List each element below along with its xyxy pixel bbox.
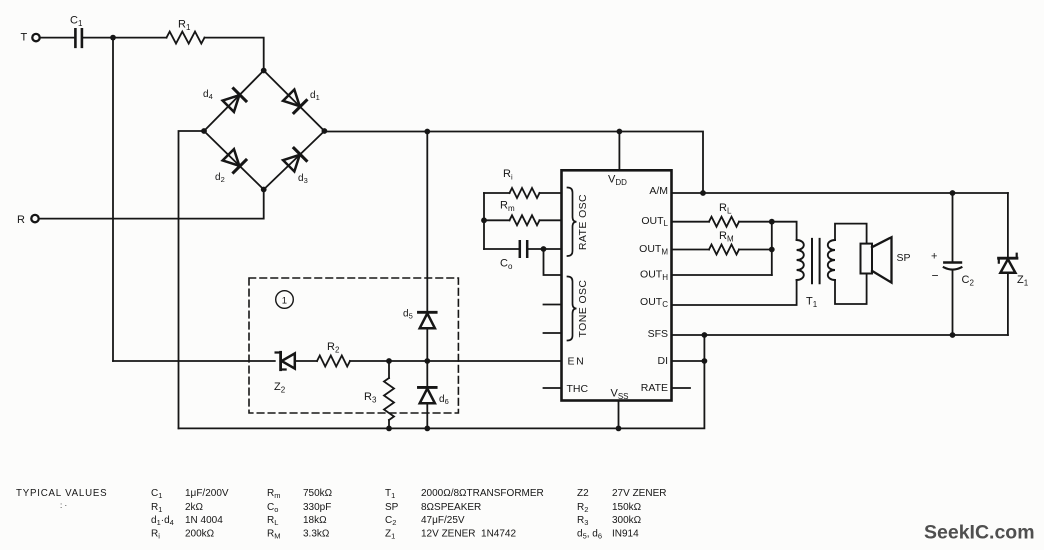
wire Co left lead xyxy=(484,248,519,250)
circled 1 annotation xyxy=(276,291,294,309)
svg-text:T1: T1 xyxy=(385,488,395,500)
wire C2 top lead xyxy=(952,193,954,262)
wire DI pin xyxy=(672,360,705,362)
node R3 bottom xyxy=(386,426,392,432)
svg-text:+: + xyxy=(931,251,937,263)
wire secondary top to speaker xyxy=(835,224,867,244)
wire node A vertical from C1 junction down to EN line xyxy=(112,38,114,361)
wire T to C1 xyxy=(40,37,74,39)
wire A/M rail xyxy=(672,192,1008,194)
svg-text:300kΩ: 300kΩ xyxy=(612,515,642,526)
node A/M junction xyxy=(700,190,706,196)
wire secondary bottom to speaker xyxy=(835,274,867,305)
node bridge bottom xyxy=(261,187,267,193)
svg-text:OUTM: OUTM xyxy=(639,243,668,256)
svg-text:RL: RL xyxy=(267,515,278,527)
svg-text:RL: RL xyxy=(719,202,732,216)
svg-text:VDD: VDD xyxy=(608,174,627,188)
node VDD tap on top rail xyxy=(617,129,623,135)
node SFS junction xyxy=(702,332,708,338)
svg-text:27V ZENER: 27V ZENER xyxy=(612,488,666,499)
svg-text:d4: d4 xyxy=(203,89,213,101)
resistor Rm xyxy=(510,215,540,225)
svg-text:Ri: Ri xyxy=(503,168,513,182)
brace RATE OSC xyxy=(568,188,577,257)
diode d6 xyxy=(426,361,428,387)
svg-text:d5: d5 xyxy=(403,309,413,321)
diode d3 xyxy=(282,148,306,172)
resistor R3 xyxy=(388,361,390,378)
svg-text:RATE OSC: RATE OSC xyxy=(577,194,589,250)
svg-text:R: R xyxy=(17,214,25,226)
zener Z1 xyxy=(999,257,1017,260)
terminal R xyxy=(31,215,38,222)
resistor RM xyxy=(709,245,739,255)
op-amp IC U1 box xyxy=(562,170,672,400)
wire tone osc stub pin 2 xyxy=(544,304,562,306)
svg-text:R1: R1 xyxy=(178,19,191,33)
speaker SP body xyxy=(861,244,873,274)
node d6 bottom xyxy=(424,426,430,432)
capacitor Co xyxy=(520,241,527,256)
wire to transformer primary top xyxy=(772,222,797,240)
svg-text:T1: T1 xyxy=(806,296,818,310)
svg-text:SFS: SFS xyxy=(648,328,668,340)
svg-text:R3: R3 xyxy=(577,515,588,527)
svg-text:R2: R2 xyxy=(577,502,588,514)
svg-text:1μF/200V: 1μF/200V xyxy=(185,488,229,499)
transformer T1 secondary coil xyxy=(828,240,835,280)
wire OUTH lead xyxy=(672,274,772,276)
node bridge right xyxy=(322,128,328,134)
svg-text:EN: EN xyxy=(568,356,586,368)
svg-text:OUTC: OUTC xyxy=(640,296,668,309)
svg-text:8ΩSPEAKER: 8ΩSPEAKER xyxy=(421,502,481,513)
wire Co right lead xyxy=(528,248,561,250)
svg-text:d6: d6 xyxy=(439,394,449,406)
svg-text:R1: R1 xyxy=(151,502,162,514)
svg-text:2000Ω/8ΩTRANSFORMER: 2000Ω/8ΩTRANSFORMER xyxy=(421,488,544,499)
svg-text:1: 1 xyxy=(282,295,287,306)
diode d1 xyxy=(282,89,306,113)
wire C2 bottom lead xyxy=(952,270,954,335)
svg-text:C1: C1 xyxy=(151,488,162,500)
svg-text:OUTH: OUTH xyxy=(640,269,668,282)
wire R to bridge bottom xyxy=(39,190,264,219)
svg-text:1N 4004: 1N 4004 xyxy=(185,515,223,526)
wire THC stub xyxy=(544,387,562,389)
diode d4 xyxy=(222,89,246,113)
svg-text:200kΩ: 200kΩ xyxy=(185,529,215,540)
diode d2 xyxy=(222,149,246,173)
node junction below C1 xyxy=(110,35,116,41)
wire R1 to bridge top xyxy=(205,38,264,71)
svg-text:C2: C2 xyxy=(962,274,975,288)
svg-text:Z2: Z2 xyxy=(274,381,286,395)
svg-text:R3: R3 xyxy=(364,391,377,405)
wire VDD pin xyxy=(618,132,620,171)
node R3 top xyxy=(386,358,392,364)
node Co output junction xyxy=(541,246,547,252)
wire OUTL lead xyxy=(672,221,710,223)
node DI junction xyxy=(702,358,708,364)
node VSS on bottom rail xyxy=(616,426,622,432)
wire bridge NE side xyxy=(264,71,325,132)
svg-text:d1·d4: d1·d4 xyxy=(151,515,174,527)
wire OUTM lead xyxy=(672,249,710,251)
wire output tie bus xyxy=(771,222,773,275)
node d5 tap on top rail xyxy=(424,129,430,135)
svg-text:−: − xyxy=(932,269,939,283)
svg-text:OUTL: OUTL xyxy=(641,215,668,228)
svg-text:THC: THC xyxy=(567,383,589,395)
wire Rm leads xyxy=(484,219,562,221)
terminal T xyxy=(32,34,39,41)
wire Z1 bottom lead xyxy=(1007,273,1009,335)
svg-text:SP: SP xyxy=(385,502,399,513)
wire RL to tie point xyxy=(739,221,772,223)
wire Ri leads xyxy=(484,192,562,194)
svg-text:T: T xyxy=(21,32,28,44)
speaker SP horn xyxy=(872,237,892,282)
wire SFS rail xyxy=(672,334,1008,336)
svg-text:d3: d3 xyxy=(298,173,308,185)
svg-text:SeekIC.com: SeekIC.com xyxy=(924,522,1035,544)
capacitor C1 xyxy=(75,29,82,47)
diode d5 xyxy=(419,311,437,314)
node bridge left xyxy=(201,128,207,134)
node C2 top xyxy=(950,190,956,196)
wire top rail from bridge right to A/M corner xyxy=(324,132,703,194)
svg-text:330pF: 330pF xyxy=(303,502,331,513)
svg-text:DI: DI xyxy=(658,355,669,367)
wire bottom rail xyxy=(179,335,705,428)
dashed option box xyxy=(249,278,458,413)
wire bridge SW side xyxy=(204,131,264,190)
svg-text:12V ZENER 1N4742: 12V ZENER 1N4742 xyxy=(421,529,516,540)
wire Co junction down to tone osc pin xyxy=(544,249,562,275)
wire Z2 to R2 xyxy=(295,360,317,362)
svg-text:Rm: Rm xyxy=(267,488,280,500)
svg-text:d2: d2 xyxy=(215,172,225,184)
zener Z2 xyxy=(279,352,282,369)
wire C1 to R1 xyxy=(83,37,166,39)
svg-text:Ri: Ri xyxy=(151,529,160,541)
svg-text:Co: Co xyxy=(267,502,278,514)
transformer T1 primary coil xyxy=(797,240,804,280)
svg-text:3.3kΩ: 3.3kΩ xyxy=(303,529,330,540)
typical values table xyxy=(16,488,666,541)
svg-text:150kΩ: 150kΩ xyxy=(612,502,642,513)
resistor RL xyxy=(709,217,739,227)
svg-text:750kΩ: 750kΩ xyxy=(303,488,333,499)
svg-text:R2: R2 xyxy=(327,341,340,355)
wire R2 to EN pin xyxy=(350,360,562,362)
wire tone osc stub pin 3 xyxy=(544,332,562,334)
svg-text:: ·: : · xyxy=(60,501,67,510)
node tie OUTL xyxy=(769,219,775,225)
svg-text:TONE OSC: TONE OSC xyxy=(577,280,589,338)
svg-text:47μF/25V: 47μF/25V xyxy=(421,515,465,526)
svg-text:Z2: Z2 xyxy=(577,488,589,499)
wire bridge left output to bottom rail xyxy=(179,131,205,428)
svg-text:TYPICAL VALUES: TYPICAL VALUES xyxy=(16,488,107,499)
brace TONE OSC xyxy=(568,277,577,341)
svg-text:Z1: Z1 xyxy=(1017,274,1029,288)
node d5 d6 junction xyxy=(424,358,430,364)
wire EN line left segment xyxy=(113,360,275,362)
wire bridge NW side xyxy=(204,71,264,132)
wire transformer primary bottom to OUTC xyxy=(672,280,797,305)
svg-text:IN914: IN914 xyxy=(612,529,639,540)
svg-text:Z1: Z1 xyxy=(385,529,395,541)
resistor Ri xyxy=(510,188,540,198)
svg-text:RM: RM xyxy=(719,230,734,244)
svg-text:C2: C2 xyxy=(385,515,396,527)
resistor R2 xyxy=(317,356,350,367)
capacitor C2 xyxy=(944,261,961,263)
wire Z1 top lead xyxy=(1007,193,1009,258)
node bridge top xyxy=(261,68,267,74)
svg-text:Co: Co xyxy=(500,258,513,272)
svg-text:d1: d1 xyxy=(310,90,320,102)
wire RATE stub xyxy=(672,387,691,389)
svg-text:A/M: A/M xyxy=(649,185,668,197)
svg-text:Rm: Rm xyxy=(500,200,515,214)
node Rm tap xyxy=(481,217,487,223)
svg-text:18kΩ: 18kΩ xyxy=(303,515,327,526)
resistor R1 xyxy=(167,32,205,44)
svg-text:RM: RM xyxy=(267,529,280,541)
wire d5 branch from top rail xyxy=(426,132,428,313)
svg-text:C1: C1 xyxy=(70,15,83,29)
svg-text:RATE: RATE xyxy=(641,382,668,394)
wire RM to tie point xyxy=(739,249,772,251)
node tie OUTM xyxy=(769,247,775,253)
svg-text:SP: SP xyxy=(897,252,911,264)
wire Ri Rm Co left bus xyxy=(483,193,485,249)
wire bridge SE side xyxy=(264,131,325,190)
wire VSS pin to bottom rail xyxy=(618,401,620,429)
svg-text:2kΩ: 2kΩ xyxy=(185,502,204,513)
svg-text:d5, d6: d5, d6 xyxy=(577,529,602,541)
svg-text:VSS: VSS xyxy=(611,388,629,402)
node C2 bottom xyxy=(950,332,956,338)
transformer T1 core xyxy=(812,239,820,283)
